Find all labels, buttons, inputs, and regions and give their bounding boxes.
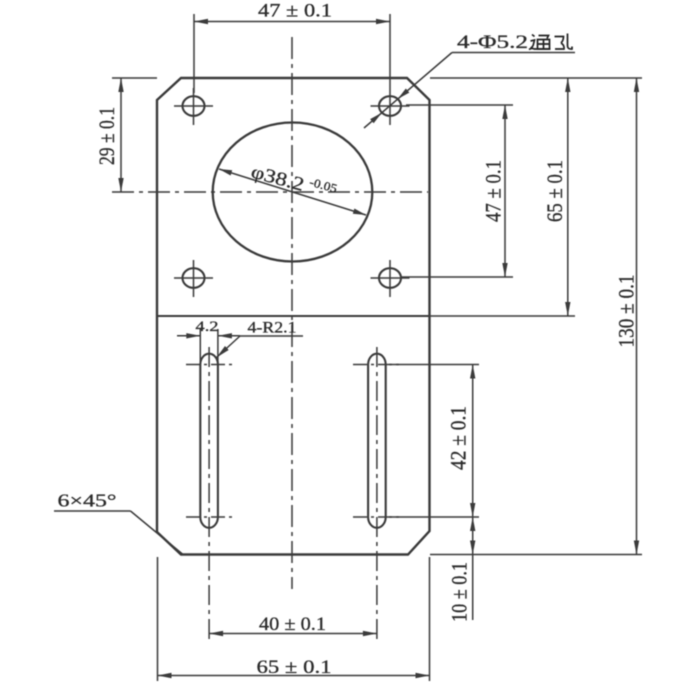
svg-text:4.2: 4.2 bbox=[196, 319, 219, 335]
right slot bbox=[368, 354, 386, 528]
svg-text:47 ± 0.1: 47 ± 0.1 bbox=[258, 1, 332, 22]
horizontal centerline (bore) bbox=[112, 191, 428, 193]
left slot bbox=[200, 354, 218, 528]
hole cross centerlines bbox=[174, 88, 410, 297]
leader 4-phi5.2 bbox=[364, 53, 575, 129]
big bore circle phi38.2 bbox=[213, 123, 373, 262]
dim 42: extension lines bbox=[389, 365, 479, 518]
dim 42: dimension line bbox=[472, 365, 474, 518]
hole top-left bbox=[183, 96, 205, 116]
dim 47 top: extension lines bbox=[194, 14, 390, 93]
hanzi kong bbox=[555, 34, 573, 50]
dim 40 bottom: dimension line bbox=[209, 633, 377, 635]
svg-text:10 ± 0.1: 10 ± 0.1 bbox=[447, 562, 472, 622]
right slot centerline bbox=[376, 347, 378, 641]
svg-text:4-Φ5.2: 4-Φ5.2 bbox=[457, 32, 528, 53]
svg-text:130 ± 0.1: 130 ± 0.1 bbox=[614, 275, 639, 348]
dim 29 left: extension + dimension line bbox=[112, 78, 157, 192]
dim 47 right: dimension line bbox=[504, 105, 506, 277]
dim 65 right: extension lines bbox=[430, 78, 642, 316]
step line across plate bbox=[157, 315, 430, 317]
dim 4.2: extension + arrow segments bbox=[177, 329, 240, 364]
label phi38.2 bbox=[249, 160, 339, 205]
leader arrowheads at hole edge bbox=[398, 89, 410, 100]
dim 65 right: dimension line bbox=[567, 78, 569, 316]
hole top-right bbox=[379, 96, 401, 116]
svg-text:6×45°: 6×45° bbox=[58, 491, 117, 511]
dim 130: dimension line bbox=[636, 78, 638, 555]
dim 47 right: extension lines bbox=[400, 105, 513, 277]
dim 130: bottom extension line bbox=[430, 554, 642, 556]
hole bottom-right bbox=[379, 268, 401, 288]
slot arc-center horizontal dashes bbox=[186, 365, 401, 518]
svg-text:65 ± 0.1: 65 ± 0.1 bbox=[542, 160, 567, 222]
bore diameter line bbox=[219, 169, 366, 215]
vertical centerline (main) bbox=[291, 37, 293, 589]
plate outline with chamfered corners bbox=[157, 78, 430, 555]
svg-text:42 ± 0.1: 42 ± 0.1 bbox=[446, 406, 471, 470]
dim 47 top: dimension line bbox=[194, 21, 390, 23]
hole bottom-left bbox=[183, 268, 205, 288]
dim 65 bottom: extension lines bbox=[158, 557, 430, 681]
leader 4-R2.1 bbox=[217, 336, 304, 358]
svg-text:4-R2.1: 4-R2.1 bbox=[248, 320, 297, 337]
left slot centerline bbox=[208, 347, 210, 641]
svg-text:φ38.2: φ38.2 bbox=[249, 162, 307, 196]
svg-text:65 ± 0.1: 65 ± 0.1 bbox=[257, 657, 332, 678]
leader 6x45 bbox=[54, 511, 183, 555]
svg-text:47 ± 0.1: 47 ± 0.1 bbox=[481, 160, 506, 222]
dim 65 bottom: dimension line bbox=[158, 675, 430, 677]
dim 10: dimension line with tail bbox=[472, 517, 474, 555]
hanzi tong bbox=[529, 35, 551, 50]
svg-text:40 ± 0.1: 40 ± 0.1 bbox=[259, 614, 326, 635]
svg-text:29 ± 0.1: 29 ± 0.1 bbox=[94, 107, 119, 165]
